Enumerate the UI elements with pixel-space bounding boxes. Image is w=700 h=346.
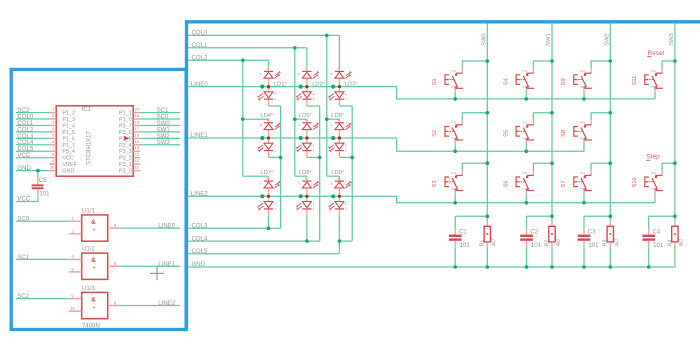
svg-text:1: 1 bbox=[71, 216, 74, 221]
svg-text:VREF: VREF bbox=[62, 162, 77, 168]
svg-text:C4: C4 bbox=[653, 229, 661, 236]
svg-text:P$1: P$1 bbox=[580, 121, 586, 125]
svg-text:P1_5: P1_5 bbox=[62, 130, 75, 136]
svg-text:COL5: COL5 bbox=[192, 248, 209, 255]
svg-text:P$1: P$1 bbox=[651, 69, 657, 73]
svg-text:P$1: P$1 bbox=[580, 69, 586, 73]
svg-text:P$1: P$1 bbox=[451, 69, 457, 73]
svg-text:19: 19 bbox=[135, 113, 140, 118]
svg-text:S8: S8 bbox=[561, 130, 567, 137]
svg-text:13: 13 bbox=[135, 152, 140, 157]
svg-text:1: 1 bbox=[274, 202, 276, 206]
svg-text:P$2: P$2 bbox=[651, 85, 657, 89]
svg-text:10: 10 bbox=[50, 165, 55, 170]
svg-text:SW3: SW3 bbox=[669, 33, 675, 46]
svg-text:GND: GND bbox=[62, 169, 74, 175]
svg-text:2: 2 bbox=[274, 97, 276, 101]
svg-text:4k7: 4k7 bbox=[615, 238, 621, 246]
svg-text:15: 15 bbox=[135, 139, 140, 144]
svg-text:S7: S7 bbox=[561, 181, 567, 188]
svg-text:P$2: P$2 bbox=[651, 187, 657, 191]
svg-text:P3_2: P3_2 bbox=[119, 156, 132, 162]
svg-text:&: & bbox=[91, 219, 96, 226]
svg-text:16: 16 bbox=[135, 132, 140, 137]
svg-text:P3_3: P3_3 bbox=[119, 149, 132, 155]
svg-text:1: 1 bbox=[313, 92, 315, 96]
svg-text:COL0: COL0 bbox=[192, 30, 209, 37]
svg-text:C5: C5 bbox=[39, 177, 47, 184]
svg-text:S3: S3 bbox=[432, 181, 438, 188]
svg-text:SW0: SW0 bbox=[482, 33, 488, 46]
svg-text:VCC: VCC bbox=[62, 156, 73, 162]
svg-text:Step: Step bbox=[647, 154, 661, 161]
svg-text:P$2: P$2 bbox=[451, 187, 457, 191]
svg-text:8: 8 bbox=[114, 300, 117, 305]
svg-text:LD4°: LD4° bbox=[260, 113, 273, 119]
svg-text:LINE1: LINE1 bbox=[191, 132, 209, 139]
svg-text:10: 10 bbox=[70, 306, 75, 311]
svg-text:&: & bbox=[91, 257, 96, 264]
svg-text:S5: S5 bbox=[503, 130, 509, 137]
svg-text:COL1: COL1 bbox=[192, 42, 209, 49]
svg-text:P5_4: P5_4 bbox=[62, 149, 75, 155]
svg-text:P$2: P$2 bbox=[580, 187, 586, 191]
svg-text:LINE2: LINE2 bbox=[191, 191, 209, 198]
svg-text:P1_2: P1_2 bbox=[62, 111, 75, 117]
svg-text:P$2: P$2 bbox=[522, 137, 528, 141]
svg-text:1: 1 bbox=[52, 107, 55, 112]
svg-text:P3_1: P3_1 bbox=[119, 162, 132, 168]
svg-text:C3: C3 bbox=[588, 229, 596, 236]
svg-text:3: 3 bbox=[331, 123, 333, 127]
svg-text:101: 101 bbox=[531, 242, 542, 249]
svg-text:P$2: P$2 bbox=[522, 85, 528, 89]
svg-text:SW2: SW2 bbox=[605, 33, 611, 46]
svg-text:S2: S2 bbox=[432, 130, 438, 137]
svg-text:SW1: SW1 bbox=[546, 33, 552, 46]
svg-text:P1_1: P1_1 bbox=[119, 111, 132, 117]
svg-text:P3_4: P3_4 bbox=[119, 143, 132, 149]
svg-text:LD9°: LD9° bbox=[331, 170, 344, 176]
svg-text:3: 3 bbox=[331, 72, 333, 76]
svg-text:P1_0: P1_0 bbox=[119, 117, 132, 123]
svg-text:LINE2: LINE2 bbox=[158, 300, 176, 307]
svg-text:1: 1 bbox=[313, 202, 315, 206]
svg-text:P3_0: P3_0 bbox=[119, 169, 132, 175]
svg-text:P1_3: P1_3 bbox=[62, 117, 75, 123]
svg-text:LD7°: LD7° bbox=[260, 170, 273, 176]
svg-text:P$1: P$1 bbox=[522, 69, 528, 73]
svg-text:2: 2 bbox=[345, 97, 347, 101]
svg-text:1: 1 bbox=[274, 143, 276, 147]
svg-text:S10: S10 bbox=[632, 177, 638, 187]
svg-text:R4: R4 bbox=[667, 240, 673, 247]
svg-text:U1/2: U1/2 bbox=[82, 246, 95, 253]
svg-text:+: + bbox=[93, 305, 96, 311]
svg-text:S6: S6 bbox=[503, 181, 509, 188]
svg-text:P$1: P$1 bbox=[651, 171, 657, 175]
svg-text:18: 18 bbox=[135, 120, 140, 125]
svg-text:P1_7: P1_7 bbox=[62, 143, 75, 149]
svg-text:P1_4: P1_4 bbox=[62, 124, 75, 130]
svg-text:LD6°: LD6° bbox=[331, 113, 344, 119]
svg-text:8: 8 bbox=[52, 152, 55, 157]
svg-text:2: 2 bbox=[313, 149, 315, 153]
svg-text:14: 14 bbox=[135, 145, 140, 150]
svg-text:R1: R1 bbox=[480, 240, 486, 247]
svg-text:7: 7 bbox=[52, 145, 55, 150]
svg-text:SC2: SC2 bbox=[17, 293, 29, 300]
svg-text:U1/1: U1/1 bbox=[82, 208, 95, 215]
svg-text:4k7: 4k7 bbox=[556, 238, 562, 246]
svg-text:4: 4 bbox=[71, 254, 74, 259]
svg-text:S4: S4 bbox=[503, 78, 509, 85]
svg-text:P3_7: P3_7 bbox=[119, 124, 132, 130]
svg-text:COL3: COL3 bbox=[192, 223, 209, 230]
svg-text:C2: C2 bbox=[530, 229, 538, 236]
svg-text:R2: R2 bbox=[544, 240, 550, 247]
svg-text:S9: S9 bbox=[561, 78, 567, 85]
svg-text:Reset: Reset bbox=[648, 50, 665, 57]
svg-text:1: 1 bbox=[345, 92, 347, 96]
svg-text:9: 9 bbox=[52, 158, 55, 163]
svg-text:LD5°: LD5° bbox=[299, 113, 312, 119]
svg-text:3: 3 bbox=[298, 182, 300, 186]
svg-text:101: 101 bbox=[460, 242, 471, 249]
svg-text:3: 3 bbox=[52, 120, 55, 125]
svg-text:3: 3 bbox=[260, 123, 262, 127]
svg-text:7408N: 7408N bbox=[82, 323, 100, 330]
svg-text:C1: C1 bbox=[459, 229, 467, 236]
svg-text:2: 2 bbox=[274, 207, 276, 211]
svg-text:LD8°: LD8° bbox=[299, 170, 312, 176]
svg-text:9: 9 bbox=[71, 293, 74, 298]
svg-text:LINE0: LINE0 bbox=[191, 81, 209, 88]
svg-text:R3: R3 bbox=[603, 240, 609, 247]
svg-text:2: 2 bbox=[313, 97, 315, 101]
svg-text:101: 101 bbox=[653, 242, 664, 249]
svg-text:&: & bbox=[91, 297, 96, 304]
svg-text:VCC: VCC bbox=[17, 196, 30, 203]
svg-text:+: + bbox=[93, 266, 96, 272]
svg-text:6: 6 bbox=[52, 139, 55, 144]
svg-text:LINE1: LINE1 bbox=[158, 261, 176, 268]
svg-text:2: 2 bbox=[345, 207, 347, 211]
svg-text:11: 11 bbox=[135, 165, 140, 170]
svg-text:3: 3 bbox=[260, 72, 262, 76]
svg-text:SW3: SW3 bbox=[157, 139, 171, 146]
svg-text:+: + bbox=[93, 228, 96, 234]
svg-text:2: 2 bbox=[345, 149, 347, 153]
svg-text:2: 2 bbox=[274, 149, 276, 153]
svg-text:20: 20 bbox=[135, 107, 140, 112]
svg-text:2: 2 bbox=[52, 113, 55, 118]
svg-text:VCC: VCC bbox=[17, 152, 30, 159]
svg-text:101: 101 bbox=[39, 191, 50, 198]
svg-text:STC8H1K17: STC8H1K17 bbox=[86, 130, 92, 164]
svg-text:P$2: P$2 bbox=[451, 85, 457, 89]
svg-text:4k7: 4k7 bbox=[492, 238, 498, 246]
svg-text:P$1: P$1 bbox=[451, 171, 457, 175]
svg-text:P$2: P$2 bbox=[451, 137, 457, 141]
svg-text:U1/3: U1/3 bbox=[82, 285, 95, 292]
svg-text:12: 12 bbox=[135, 158, 140, 163]
svg-text:5: 5 bbox=[52, 132, 55, 137]
svg-text:P$1: P$1 bbox=[580, 171, 586, 175]
svg-text:COL4: COL4 bbox=[192, 235, 209, 242]
svg-text:S11: S11 bbox=[632, 76, 638, 86]
svg-text:3: 3 bbox=[298, 72, 300, 76]
svg-text:3: 3 bbox=[114, 223, 117, 228]
svg-text:17: 17 bbox=[135, 126, 140, 131]
svg-text:P$2: P$2 bbox=[580, 137, 586, 141]
svg-text:IC1: IC1 bbox=[82, 106, 92, 113]
svg-text:P$1: P$1 bbox=[522, 171, 528, 175]
svg-text:P$1: P$1 bbox=[451, 121, 457, 125]
svg-text:5: 5 bbox=[71, 267, 74, 272]
svg-text:P3_6: P3_6 bbox=[119, 130, 132, 136]
svg-text:GND: GND bbox=[17, 165, 31, 172]
svg-text:1: 1 bbox=[345, 202, 347, 206]
svg-text:1: 1 bbox=[313, 143, 315, 147]
svg-text:101: 101 bbox=[588, 242, 599, 249]
svg-text:2: 2 bbox=[313, 207, 315, 211]
svg-text:GND: GND bbox=[192, 261, 206, 268]
svg-text:6: 6 bbox=[114, 261, 117, 266]
svg-text:P$2: P$2 bbox=[522, 187, 528, 191]
svg-text:3: 3 bbox=[298, 123, 300, 127]
svg-text:S1: S1 bbox=[432, 78, 438, 85]
svg-text:SC0: SC0 bbox=[17, 216, 29, 223]
svg-text:LINE0: LINE0 bbox=[158, 223, 176, 230]
svg-text:4: 4 bbox=[52, 126, 55, 131]
svg-text:1: 1 bbox=[274, 92, 276, 96]
svg-text:COL2: COL2 bbox=[192, 55, 209, 62]
svg-text:SC1: SC1 bbox=[17, 254, 29, 261]
svg-text:4k7: 4k7 bbox=[679, 238, 685, 246]
svg-text:P$2: P$2 bbox=[580, 85, 586, 89]
svg-text:3: 3 bbox=[260, 182, 262, 186]
svg-text:3: 3 bbox=[331, 182, 333, 186]
svg-text:P1_6: P1_6 bbox=[62, 136, 75, 142]
svg-text:P$1: P$1 bbox=[522, 121, 528, 125]
svg-text:2: 2 bbox=[71, 229, 74, 234]
svg-text:1: 1 bbox=[345, 143, 347, 147]
